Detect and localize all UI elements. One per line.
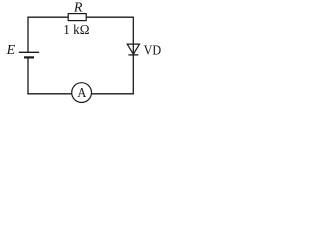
wire: top horizontal	[27, 16, 133, 18]
svg-text:A: A	[77, 85, 86, 100]
wire: bottom horizontal	[27, 93, 133, 95]
svg-text:1 kΩ: 1 kΩ	[63, 22, 89, 37]
ammeter A (circle)	[72, 83, 92, 103]
battery E: short thick plate (-)	[24, 56, 34, 58]
wire: right vertical (through diode)	[132, 17, 134, 95]
svg-text:VD: VD	[144, 43, 162, 58]
wire: left vertical upper (to battery + plate)	[27, 17, 29, 52]
wire: left vertical lower (battery - plate to bottom corner)	[27, 58, 29, 95]
svg-text:R: R	[73, 0, 83, 15]
diode VD: cathode bar	[128, 54, 138, 56]
diode VD: triangle (anode, pointing down)	[127, 44, 139, 54]
svg-text:E: E	[6, 43, 16, 58]
resistor R (box)	[68, 14, 86, 21]
battery E: long plate (+)	[19, 51, 39, 53]
